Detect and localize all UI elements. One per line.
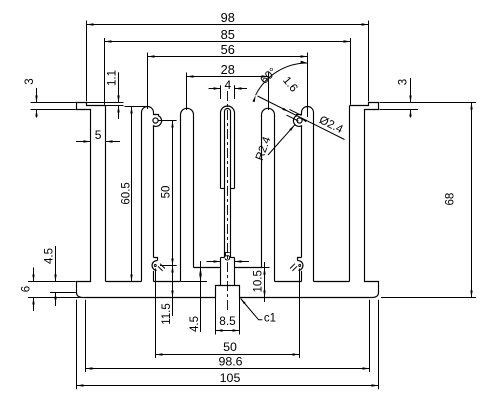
svg-text:50: 50 — [160, 186, 172, 199]
svg-text:5: 5 — [224, 249, 231, 263]
svg-text:50: 50 — [223, 340, 237, 354]
svg-text:85: 85 — [221, 27, 235, 42]
svg-text:4.5: 4.5 — [189, 316, 201, 332]
svg-text:4: 4 — [225, 78, 232, 92]
svg-text:98.6: 98.6 — [218, 355, 242, 369]
svg-text:8.5: 8.5 — [219, 314, 236, 328]
svg-text:10.5: 10.5 — [253, 270, 265, 292]
svg-text:56: 56 — [221, 42, 235, 57]
svg-text:98: 98 — [221, 10, 235, 25]
svg-text:11.5: 11.5 — [161, 303, 173, 325]
svg-text:3: 3 — [397, 79, 409, 85]
svg-text:68: 68 — [445, 193, 457, 206]
svg-text:6: 6 — [21, 286, 33, 292]
svg-text:3: 3 — [24, 78, 36, 84]
svg-text:28: 28 — [221, 62, 235, 77]
svg-text:5: 5 — [95, 128, 102, 142]
svg-text:105: 105 — [220, 371, 241, 385]
svg-text:1.1: 1.1 — [107, 70, 119, 86]
svg-text:4.5: 4.5 — [43, 248, 55, 264]
svg-text:c1: c1 — [264, 312, 276, 324]
svg-text:60.5: 60.5 — [121, 182, 133, 204]
